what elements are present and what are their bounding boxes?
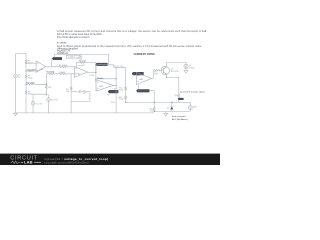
svg-text:V3 2.5V: V3 2.5V xyxy=(51,100,59,102)
ground right xyxy=(164,111,168,116)
svg-text:0.8V: 0.8V xyxy=(111,102,116,104)
ground rail xyxy=(16,112,155,114)
op-amp OA5 xyxy=(137,73,152,85)
resistor R10 xyxy=(119,86,127,91)
wire R5 ground branch xyxy=(70,74,72,113)
resistor R3 xyxy=(46,71,55,74)
svg-text:20mA: 20mA xyxy=(189,66,195,69)
svg-text:R5 100kΩ: R5 100kΩ xyxy=(27,83,36,85)
wire buffer output down xyxy=(115,67,117,113)
svg-text:increase R to lower signal: increase R to lower signal xyxy=(180,90,205,93)
wire sense rail xyxy=(126,101,191,103)
zener D2 xyxy=(167,102,174,111)
svg-text:LAB: LAB xyxy=(24,160,33,165)
resistor R1 xyxy=(26,70,36,72)
svg-text:10k: 10k xyxy=(66,91,69,93)
svg-text:10k: 10k xyxy=(48,87,51,89)
wire OA1 output to R2 xyxy=(46,66,75,68)
svg-text:CURRENT DRIVE: CURRENT DRIVE xyxy=(134,53,156,56)
wire OA5 feedback from sense xyxy=(139,85,155,103)
wire lower diff input xyxy=(46,73,74,75)
svg-text:OA2: OA2 xyxy=(77,73,81,76)
resistor R7 xyxy=(25,74,33,79)
svg-text:circuitlab.com/cvb85v42bvfj5m2: circuitlab.com/cvb85v42bvfj5m2 xyxy=(44,160,89,164)
wire OA2 output and feedback xyxy=(77,63,96,73)
current source I1 xyxy=(184,64,195,69)
svg-text:1.6V: 1.6V xyxy=(112,89,117,91)
svg-text:R3 100kΩ: R3 100kΩ xyxy=(46,71,55,73)
svg-text:10kΩ: 10kΩ xyxy=(28,63,33,65)
voltage source V1 xyxy=(14,74,22,79)
wire emitter to load column xyxy=(167,74,179,102)
node voltage box xyxy=(66,55,80,58)
svg-text:mcp602: mcp602 xyxy=(78,65,86,67)
node tag sensor out xyxy=(95,63,107,66)
node tag load xyxy=(178,98,184,100)
svg-text:done to protect: done to protect xyxy=(172,115,186,118)
svg-text:R2 100kΩ: R2 100kΩ xyxy=(59,65,68,67)
transistor Q1 xyxy=(161,66,179,74)
resistor R6 xyxy=(25,60,33,65)
svg-text:this circuit attempts to conve: this circuit attempts to convert xyxy=(57,36,90,39)
footer title text xyxy=(44,157,108,164)
svg-text:1kΩ: 1kΩ xyxy=(154,74,158,76)
resistor R12 xyxy=(150,102,155,112)
capacitor C1 xyxy=(71,90,90,102)
wire feedback top xyxy=(55,54,109,64)
svg-text:4mA to 20mA output proportiona: 4mA to 20mA output proportional to the m… xyxy=(57,45,202,48)
resistor R2 xyxy=(59,65,68,68)
wire V2 branch xyxy=(33,94,46,113)
svg-text:V2 2.5V: V2 2.5V xyxy=(35,103,43,105)
svg-text:1.649 V: 1.649 V xyxy=(68,57,76,59)
svg-text:BC547B: BC547B xyxy=(171,71,179,73)
resistor R9 xyxy=(154,69,160,75)
svg-text:R1 100kΩ: R1 100kΩ xyxy=(28,70,37,72)
resistor R5a xyxy=(27,83,36,86)
wire divider column xyxy=(125,67,127,102)
svg-text:out_to_adc: out_to_adc xyxy=(114,64,124,67)
svg-text:100kΩ: 100kΩ xyxy=(59,72,65,74)
op-amp OA4 buffer xyxy=(96,77,113,91)
ground left xyxy=(13,113,17,116)
wire R5a horizontal xyxy=(26,83,46,85)
op-amp OA2 xyxy=(74,65,87,77)
resistor R13 xyxy=(174,94,179,98)
resistor R4 xyxy=(79,61,87,64)
wire collector to top xyxy=(167,62,186,67)
resistor R8 xyxy=(25,90,33,95)
wire offset column xyxy=(46,74,48,113)
logo circuitlab xyxy=(10,156,41,165)
node tag sense xyxy=(136,89,149,92)
node tag buffered xyxy=(108,90,119,93)
svg-text:R4 1MΩ: R4 1MΩ xyxy=(79,61,87,63)
wire top-left loop xyxy=(16,54,27,114)
ground below I1 xyxy=(184,69,188,73)
voltmeter VM1 xyxy=(188,102,197,111)
wire lower sense rail xyxy=(154,110,190,112)
op-amp OA1 xyxy=(36,61,46,72)
svg-text:50Ω: 50Ω xyxy=(150,110,154,112)
node tag current set xyxy=(132,72,144,75)
wire node to buffer xyxy=(96,65,126,83)
svg-text:10kΩ: 10kΩ xyxy=(119,89,124,91)
svg-text:ADC (like Above): ADC (like Above) xyxy=(172,118,188,121)
annotation done to protect xyxy=(172,115,188,121)
wire op-amp OA1 inverting input xyxy=(26,62,36,64)
resistor R5 xyxy=(66,87,72,94)
resistor R14 xyxy=(45,85,51,89)
node tag vhall xyxy=(52,57,62,67)
footer bar xyxy=(0,154,220,165)
annotation paragraph xyxy=(57,30,207,55)
svg-text:1.64V: 1.64V xyxy=(89,75,95,77)
svg-text:OA4: OA4 xyxy=(99,85,103,88)
voltage source V2 xyxy=(31,102,43,106)
wire buffer feedback xyxy=(96,79,117,86)
wire left input column xyxy=(25,54,27,113)
svg-text:10kΩ: 10kΩ xyxy=(28,93,33,95)
junction dots xyxy=(25,63,172,112)
svg-text:OA5: OA5 xyxy=(139,78,143,81)
svg-text:OA1: OA1 xyxy=(39,68,43,71)
svg-text:10kΩ: 10kΩ xyxy=(28,77,33,79)
resistor R3b xyxy=(59,72,66,75)
voltage source V3 xyxy=(47,98,59,102)
capacitor C2 xyxy=(76,54,82,62)
wire OA5 output xyxy=(152,70,164,78)
svg-text:10kΩ: 10kΩ xyxy=(119,99,124,101)
resistor R11 xyxy=(119,96,127,101)
svg-text:Buffer: Buffer xyxy=(97,77,103,80)
